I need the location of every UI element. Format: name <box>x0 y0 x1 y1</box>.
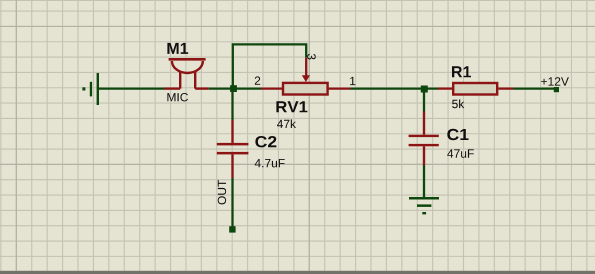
label 47k <box>277 119 296 128</box>
label C2 <box>255 136 276 147</box>
label 4.7uF <box>255 159 285 167</box>
wire: M1 right pin to node A <box>209 87 233 89</box>
label MIC <box>167 93 188 101</box>
label OUT (rotated) <box>218 180 226 204</box>
wire: C2 to OUT terminal <box>231 178 233 227</box>
label +12V <box>541 77 569 85</box>
microphone M1 <box>165 59 209 88</box>
label M1 <box>167 43 188 54</box>
label C1 <box>447 129 468 140</box>
ground (input return, rotated left) <box>82 73 99 105</box>
terminal OUT <box>229 226 235 232</box>
wire: RV1 pin 1 to node B <box>351 87 439 89</box>
ground <box>409 197 439 214</box>
wire: input ground to M1 left pin <box>99 87 165 89</box>
label R1 <box>452 66 471 77</box>
potentiometer RV1 <box>261 58 351 95</box>
resistor R1 <box>438 83 513 95</box>
pin number 2 <box>255 76 260 84</box>
capacitor C2 <box>217 89 249 178</box>
label 5k <box>452 99 464 108</box>
node A junction dot <box>230 85 237 92</box>
node B junction dot <box>421 86 428 93</box>
pin number 3 (rotated) <box>307 54 315 60</box>
terminal +12V <box>554 87 559 92</box>
wire: node A to RV1 pin 2 <box>233 87 261 89</box>
pin number 1 <box>350 77 355 85</box>
wire: node A loop up to RV1 pin 3 <box>233 44 306 86</box>
capacitor C1 <box>409 89 439 165</box>
wire: C1 to ground <box>423 165 425 197</box>
label RV1 <box>276 101 307 112</box>
label 47uF <box>447 149 474 157</box>
bottom window edge bar (decorative) <box>0 271 595 274</box>
wire: R1 to +12V terminal <box>513 87 554 89</box>
